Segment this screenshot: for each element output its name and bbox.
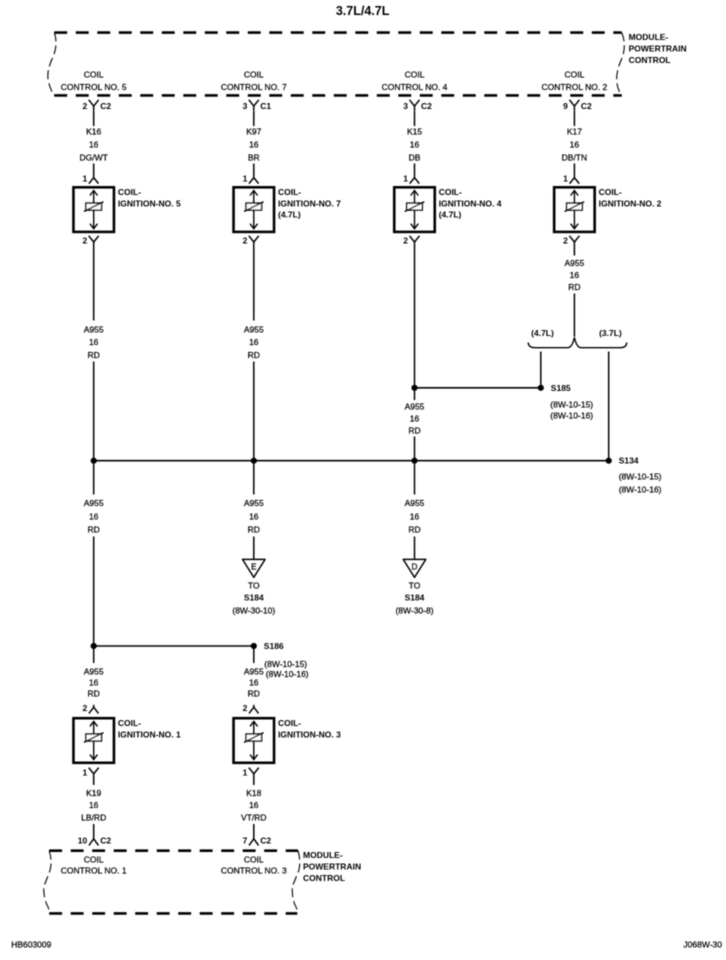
svg-text:K17: K17 — [567, 127, 582, 137]
svg-text:(4.7L): (4.7L) — [531, 328, 554, 338]
svg-text:2: 2 — [82, 703, 87, 713]
svg-text:16: 16 — [410, 414, 420, 424]
svg-text:IGNITION-NO. 4: IGNITION-NO. 4 — [439, 198, 502, 208]
svg-text:COIL: COIL — [405, 70, 425, 80]
svg-text:(8W-10-15): (8W-10-15) — [550, 399, 593, 409]
svg-text:A955: A955 — [405, 402, 425, 412]
svg-text:COIL-: COIL- — [278, 718, 301, 728]
svg-text:CONTROL NO. 7: CONTROL NO. 7 — [221, 82, 287, 92]
svg-text:16: 16 — [249, 678, 259, 688]
svg-text:RD: RD — [248, 689, 260, 699]
svg-text:16: 16 — [89, 800, 99, 810]
svg-text:K16: K16 — [86, 127, 101, 137]
svg-text:RD: RD — [88, 350, 100, 360]
svg-text:1: 1 — [563, 174, 568, 184]
svg-text:CONTROL: CONTROL — [629, 55, 671, 65]
svg-text:3: 3 — [403, 101, 408, 111]
svg-text:9: 9 — [563, 101, 568, 111]
svg-text:C2: C2 — [100, 835, 111, 845]
svg-text:A955: A955 — [244, 324, 264, 334]
svg-text:COIL-: COIL- — [118, 187, 141, 197]
svg-text:IGNITION-NO. 5: IGNITION-NO. 5 — [118, 198, 181, 208]
svg-text:K97: K97 — [246, 127, 261, 137]
svg-text:A955: A955 — [244, 498, 264, 508]
svg-text:TO: TO — [248, 581, 260, 591]
svg-text:(8W-10-16): (8W-10-16) — [619, 484, 662, 494]
svg-text:DB: DB — [409, 153, 421, 163]
svg-text:16: 16 — [89, 337, 99, 347]
svg-text:IGNITION-NO. 2: IGNITION-NO. 2 — [599, 198, 662, 208]
svg-text:CONTROL NO. 4: CONTROL NO. 4 — [382, 82, 448, 92]
svg-text:J068W-30: J068W-30 — [683, 940, 722, 950]
svg-text:CONTROL NO. 3: CONTROL NO. 3 — [221, 866, 287, 876]
svg-text:RD: RD — [568, 282, 580, 292]
svg-text:S186: S186 — [264, 641, 284, 651]
svg-text:CONTROL: CONTROL — [303, 873, 345, 883]
svg-text:MODULE-: MODULE- — [629, 32, 669, 42]
svg-text:16: 16 — [570, 270, 580, 280]
svg-text:A955: A955 — [84, 667, 104, 677]
svg-text:16: 16 — [570, 140, 580, 150]
svg-text:COIL-: COIL- — [599, 187, 622, 197]
svg-text:2: 2 — [82, 236, 87, 246]
svg-text:(8W-10-15): (8W-10-15) — [619, 471, 662, 481]
svg-text:7: 7 — [243, 835, 248, 845]
svg-text:E: E — [251, 563, 257, 572]
svg-text:16: 16 — [410, 140, 420, 150]
svg-text:16: 16 — [249, 800, 259, 810]
svg-text:16: 16 — [249, 140, 259, 150]
svg-text:IGNITION-NO. 3: IGNITION-NO. 3 — [278, 729, 341, 739]
svg-text:D: D — [412, 563, 418, 572]
svg-text:(8W-10-15): (8W-10-15) — [264, 659, 307, 669]
svg-text:LB/RD: LB/RD — [81, 812, 106, 822]
svg-text:RD: RD — [408, 525, 420, 535]
svg-text:1: 1 — [243, 767, 248, 777]
svg-text:1: 1 — [243, 174, 248, 184]
svg-text:A955: A955 — [84, 324, 104, 334]
svg-text:COIL: COIL — [84, 855, 104, 865]
svg-text:A955: A955 — [84, 498, 104, 508]
svg-text:RD: RD — [248, 350, 260, 360]
svg-text:S134: S134 — [619, 456, 639, 466]
svg-text:VT/RD: VT/RD — [241, 812, 267, 822]
svg-text:DB/TN: DB/TN — [562, 153, 588, 163]
svg-text:2: 2 — [82, 101, 87, 111]
svg-text:POWERTRAIN: POWERTRAIN — [303, 861, 361, 871]
svg-text:(8W-10-16): (8W-10-16) — [550, 411, 593, 421]
svg-text:1: 1 — [82, 174, 87, 184]
svg-text:MODULE-: MODULE- — [303, 850, 343, 860]
svg-text:(3.7L): (3.7L) — [599, 328, 622, 338]
svg-text:A955: A955 — [405, 498, 425, 508]
svg-text:IGNITION-NO. 1: IGNITION-NO. 1 — [118, 729, 181, 739]
svg-text:COIL-: COIL- — [118, 718, 141, 728]
svg-text:16: 16 — [410, 512, 420, 522]
svg-text:K19: K19 — [86, 788, 101, 798]
svg-text:COIL: COIL — [564, 70, 584, 80]
svg-text:16: 16 — [249, 337, 259, 347]
svg-text:2: 2 — [243, 703, 248, 713]
svg-text:DG/WT: DG/WT — [80, 153, 108, 163]
svg-text:3: 3 — [243, 101, 248, 111]
svg-text:IGNITION-NO. 7: IGNITION-NO. 7 — [278, 198, 341, 208]
svg-text:C2: C2 — [100, 101, 111, 111]
svg-text:C2: C2 — [421, 101, 432, 111]
svg-text:C2: C2 — [581, 101, 592, 111]
svg-text:1: 1 — [403, 174, 408, 184]
svg-text:(4.7L): (4.7L) — [439, 210, 462, 220]
svg-text:16: 16 — [89, 512, 99, 522]
svg-text:COIL-: COIL- — [439, 187, 462, 197]
svg-text:CONTROL NO. 5: CONTROL NO. 5 — [61, 82, 127, 92]
svg-text:COIL: COIL — [244, 855, 264, 865]
svg-text:16: 16 — [89, 678, 99, 688]
svg-text:16: 16 — [249, 512, 259, 522]
svg-text:RD: RD — [88, 525, 100, 535]
svg-text:CONTROL NO. 1: CONTROL NO. 1 — [61, 866, 127, 876]
svg-text:RD: RD — [248, 525, 260, 535]
svg-text:RD: RD — [408, 426, 420, 436]
svg-text:COIL: COIL — [244, 70, 264, 80]
svg-text:POWERTRAIN: POWERTRAIN — [629, 44, 687, 54]
svg-text:2: 2 — [563, 236, 568, 246]
svg-text:RD: RD — [88, 689, 100, 699]
svg-text:1: 1 — [82, 767, 87, 777]
svg-text:HB603009: HB603009 — [11, 940, 51, 950]
svg-text:K15: K15 — [407, 127, 422, 137]
svg-text:2: 2 — [403, 236, 408, 246]
svg-text:10: 10 — [78, 835, 88, 845]
svg-text:S184: S184 — [244, 592, 264, 602]
svg-text:COIL: COIL — [84, 70, 104, 80]
svg-text:COIL-: COIL- — [278, 187, 301, 197]
svg-text:(8W-10-16): (8W-10-16) — [266, 669, 309, 679]
svg-text:S184: S184 — [405, 592, 425, 602]
svg-text:2: 2 — [243, 236, 248, 246]
svg-text:A955: A955 — [564, 258, 584, 268]
svg-text:(4.7L): (4.7L) — [278, 210, 301, 220]
svg-text:16: 16 — [89, 140, 99, 150]
svg-text:TO: TO — [409, 581, 421, 591]
svg-text:CONTROL NO. 2: CONTROL NO. 2 — [541, 82, 607, 92]
svg-text:(8W-30-8): (8W-30-8) — [395, 605, 433, 615]
svg-text:BR: BR — [248, 153, 260, 163]
svg-text:C1: C1 — [260, 101, 271, 111]
svg-text:S185: S185 — [551, 383, 571, 393]
svg-text:K18: K18 — [246, 788, 261, 798]
svg-text:3.7L/4.7L: 3.7L/4.7L — [336, 4, 390, 18]
svg-text:(8W-30-10): (8W-30-10) — [232, 605, 275, 615]
svg-text:C2: C2 — [260, 835, 271, 845]
svg-text:A955: A955 — [244, 667, 264, 677]
